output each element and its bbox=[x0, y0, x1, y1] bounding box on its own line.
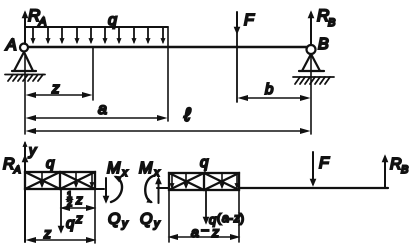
dimension b bbox=[241, 97, 307, 99]
FBD2 RB label bbox=[390, 156, 408, 176]
svg-text:a: a bbox=[191, 224, 199, 240]
support B ground hatching bbox=[293, 77, 334, 84]
svg-text:): ) bbox=[240, 211, 244, 225]
dimension a bbox=[29, 117, 164, 119]
svg-text:B: B bbox=[328, 17, 335, 29]
FBD2 F label bbox=[319, 155, 330, 172]
svg-text:F: F bbox=[319, 155, 330, 172]
support A pin bbox=[12, 44, 36, 72]
FBD1 Mx label bbox=[107, 160, 128, 179]
FBD1 beam stub at cut bbox=[95, 188, 104, 190]
svg-text:q: q bbox=[66, 215, 75, 232]
q value label bbox=[108, 12, 117, 29]
FBD1 half-z fraction label bbox=[66, 190, 83, 208]
FBD1 Qy label bbox=[108, 211, 129, 230]
distributed load q top line bbox=[26, 26, 168, 28]
y axis label bbox=[28, 142, 37, 158]
FBD2 shear Qy arrow bbox=[158, 179, 160, 203]
FBD1 q label bbox=[46, 155, 55, 172]
FBD2 beam to B bbox=[239, 187, 388, 189]
FBD1 dimension z bbox=[29, 239, 93, 241]
RB label bbox=[317, 6, 335, 29]
svg-text:A: A bbox=[5, 37, 17, 54]
svg-text:Q: Q bbox=[140, 211, 152, 228]
l label bbox=[183, 105, 191, 126]
dimension z bbox=[29, 94, 89, 96]
support B pin bbox=[299, 45, 324, 71]
FBD1 moment Mx arc bbox=[111, 177, 122, 202]
svg-text:y: y bbox=[28, 142, 37, 158]
RA label bbox=[28, 6, 46, 28]
svg-text:z: z bbox=[75, 211, 83, 226]
FBD2 load box bbox=[169, 173, 239, 190]
svg-text:M: M bbox=[139, 160, 153, 177]
svg-text:B: B bbox=[401, 164, 408, 176]
extension line at B down through dimensions bbox=[310, 54, 312, 134]
svg-text:M: M bbox=[107, 160, 121, 177]
FBD2 Mx label bbox=[139, 160, 160, 179]
force F arrow bbox=[236, 12, 238, 102]
svg-text:y: y bbox=[121, 218, 129, 230]
svg-text:z: z bbox=[75, 192, 83, 207]
support A ground hatching bbox=[5, 75, 45, 82]
FBD1 left cut: y axis with RA line bbox=[24, 143, 26, 242]
FBD1 RA label bbox=[3, 156, 21, 176]
FBD2 beam stub at cut bbox=[157, 187, 169, 189]
FBD2 Qy label bbox=[140, 211, 161, 230]
svg-text:x: x bbox=[121, 167, 128, 179]
FBD1 load box bbox=[25, 172, 95, 189]
svg-text:q: q bbox=[108, 12, 117, 29]
distributed load arrows bbox=[33, 28, 163, 42]
svg-text:(: ( bbox=[217, 211, 221, 225]
FBD1 right cut extension line bbox=[94, 172, 96, 243]
svg-text:a: a bbox=[98, 101, 107, 118]
dimension l bbox=[29, 130, 307, 132]
svg-text:a: a bbox=[222, 211, 229, 225]
svg-text:y: y bbox=[153, 218, 161, 230]
svg-text:A: A bbox=[13, 165, 21, 176]
FBD2 resultant q(a-z) arrow bbox=[205, 190, 207, 222]
FBD1 resultant qz arrow bbox=[60, 189, 62, 231]
b label bbox=[265, 81, 273, 98]
node B label bbox=[318, 36, 329, 53]
svg-text:b: b bbox=[265, 81, 273, 98]
FBD1 RA arrowhead bbox=[24, 157, 26, 172]
reaction RA arrow bbox=[24, 13, 26, 44]
F label bbox=[244, 12, 255, 29]
FBD2 load box arrows bbox=[172, 174, 237, 187]
svg-text:x: x bbox=[153, 167, 160, 179]
FBD2 q label with tick bbox=[200, 154, 209, 173]
FBD2 dimension a-z bbox=[171, 236, 237, 238]
a label bbox=[98, 101, 107, 118]
z label bbox=[51, 80, 60, 97]
extension line at A down through dimensions bbox=[24, 55, 26, 134]
node A label bbox=[5, 37, 17, 54]
beam AB bbox=[25, 46, 308, 48]
FBD2 left extension line bbox=[168, 190, 170, 242]
FBD2 right extension line bbox=[238, 190, 240, 242]
FBD1 qz label bbox=[66, 211, 83, 232]
FBD2 moment Mx arc bbox=[145, 176, 153, 202]
svg-text:B: B bbox=[318, 36, 329, 53]
svg-text:z: z bbox=[43, 225, 51, 241]
FBD1 half-z dimension bbox=[63, 207, 93, 209]
svg-text:z: z bbox=[51, 80, 60, 97]
FBD1 z label bbox=[43, 225, 51, 241]
svg-text:ℓ: ℓ bbox=[183, 105, 191, 126]
FBD2 reaction RB arrow bbox=[384, 157, 386, 187]
reaction RB arrow bbox=[310, 13, 312, 44]
FBD1 load box arrows bbox=[42, 173, 92, 186]
extension line at z bbox=[92, 48, 94, 100]
FBD1 shear Qy arrow bbox=[105, 178, 107, 201]
svg-text:z: z bbox=[211, 224, 219, 240]
extension line at end of load (a) bbox=[167, 28, 169, 121]
svg-text:−: − bbox=[201, 222, 209, 238]
svg-text:q: q bbox=[46, 155, 55, 172]
svg-text:F: F bbox=[244, 12, 255, 29]
svg-text:Q: Q bbox=[108, 211, 120, 228]
FBD2 q(a-z) label bbox=[209, 211, 244, 227]
FBD2 force F arrow bbox=[312, 152, 314, 184]
svg-text:-: - bbox=[229, 211, 233, 225]
FBD2 a-z label bbox=[191, 222, 219, 240]
